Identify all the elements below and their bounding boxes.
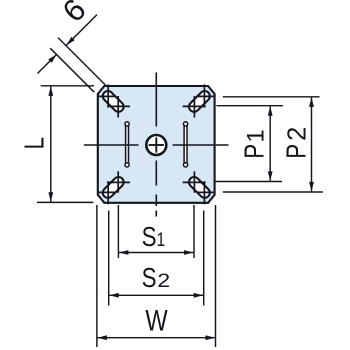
label S2 bbox=[142, 263, 157, 294]
S2 extension lines bbox=[108, 211, 110, 306]
TL inner cap crosshair bbox=[117, 96, 119, 118]
S1 extension lines bbox=[117, 205, 119, 258]
right vertical slot bbox=[184, 122, 187, 166]
label L bbox=[19, 137, 50, 149]
L top extension line bbox=[41, 85, 94, 87]
svg-text:2: 2 bbox=[284, 127, 312, 141]
corner slot bottom-left bbox=[101, 175, 126, 200]
right slot end dots bbox=[183, 122, 187, 126]
BL inner cap crosshair bbox=[117, 171, 119, 193]
main horizontal centerline bbox=[84, 144, 139, 146]
svg-text:W: W bbox=[145, 304, 168, 337]
label S1 bbox=[142, 222, 166, 253]
dimension 6: extension line B (inner side of corner slot) bbox=[50, 48, 94, 92]
BR inner cap crosshair bbox=[193, 171, 195, 193]
plate body (square with chamfered corners) bbox=[98, 86, 215, 203]
BR outer cap crosshair bbox=[203, 181, 205, 204]
svg-text:S1: S1 bbox=[142, 222, 166, 253]
P2 top extension bbox=[223, 96, 320, 98]
left slot end dots bbox=[125, 122, 129, 126]
S1 dimension line bbox=[119, 252, 193, 254]
BL outer cap crosshair bbox=[107, 181, 109, 204]
svg-text:S: S bbox=[142, 263, 157, 294]
center hole crosshair bbox=[149, 144, 164, 146]
W extension lines bbox=[96, 205, 98, 347]
W dimension line bbox=[98, 337, 215, 339]
svg-text:L: L bbox=[19, 137, 50, 149]
label W bbox=[145, 304, 168, 337]
main vertical centerline bbox=[155, 73, 157, 127]
svg-text:P: P bbox=[281, 144, 312, 159]
TR inner cap crosshair bbox=[193, 96, 195, 118]
corner slot bottom-right bbox=[187, 175, 212, 200]
L dimension line bbox=[50, 87, 52, 202]
svg-text:2: 2 bbox=[157, 270, 170, 292]
label P2 bbox=[281, 144, 312, 159]
S2 dimension line bbox=[109, 294, 203, 296]
TL outer cap crosshair bbox=[107, 85, 109, 108]
center hole bbox=[146, 135, 166, 155]
label P1 bbox=[239, 144, 270, 159]
dimension 6: dimension line with outside arrows bbox=[66, 15, 97, 46]
P2 bottom extension bbox=[223, 191, 323, 193]
corner slot top-right bbox=[187, 89, 212, 114]
corner slot top-left bbox=[101, 89, 126, 114]
P1 bottom extension bbox=[215, 181, 282, 183]
label 6 bbox=[56, 0, 93, 29]
L bottom extension line bbox=[37, 201, 93, 203]
P1 top extension bbox=[216, 105, 283, 107]
svg-text:P: P bbox=[239, 144, 270, 159]
dimension 6: extension line A (outer side of corner slot) bbox=[58, 38, 106, 86]
P2 dimension line bbox=[311, 98, 313, 192]
TR outer cap crosshair bbox=[203, 85, 205, 108]
left vertical slot bbox=[126, 122, 129, 166]
svg-text:1: 1 bbox=[243, 129, 270, 142]
P1 dimension line bbox=[269, 106, 271, 180]
